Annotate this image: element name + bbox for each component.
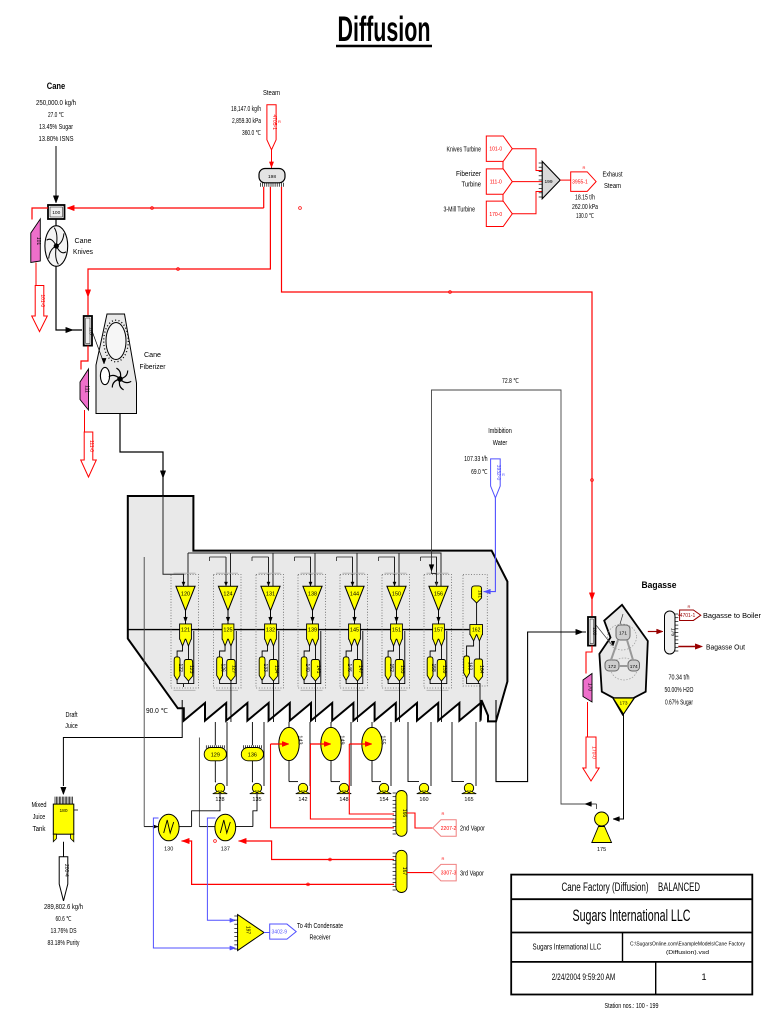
svg-text:13.80% ISNS: 13.80% ISNS [39,136,74,143]
wire heater 155 vapor (red) [349,744,394,814]
svg-text:60.6 ℃: 60.6 ℃ [56,916,72,923]
svg-text:175: 175 [597,847,606,853]
svg-text:139: 139 [308,628,317,634]
svg-text:161: 161 [476,590,482,598]
wire heater 137 out [236,826,253,828]
wire 111 to tag 111-0 (red) [84,410,86,432]
svg-text:152: 152 [388,663,394,672]
fiberizer small roll [100,367,109,384]
svg-text:Bagasse: Bagasse [642,580,677,590]
svg-text:144: 144 [350,592,359,598]
svg-text:122: 122 [177,663,183,672]
svg-text:131: 131 [266,592,275,598]
wire fiberizer feed inside tower [163,496,184,586]
svg-text:111: 111 [84,385,90,393]
pump 148 [339,783,348,792]
wire 110 into fiberizer [92,331,104,362]
stream tag 170-0 arrow [486,201,512,226]
pump 128 [215,783,224,792]
mill internal links [611,640,618,660]
wire 100 to turbine 101 (red) [32,208,48,220]
svg-text:13.45% Sugar: 13.45% Sugar [39,124,74,131]
svg-text:R: R [583,165,586,170]
svg-text:107.33 t/h: 107.33 t/h [464,456,488,463]
svg-text:83.18% Purity: 83.18% Purity [48,940,80,947]
wire heater 149 vapor (red) [310,744,394,819]
wire into heater 130 [144,826,158,828]
svg-text:160: 160 [419,797,428,803]
title block [511,875,752,995]
station box 100 [48,205,65,219]
svg-text:262.00 kPa: 262.00 kPa [572,204,598,211]
svg-text:R: R [442,856,445,861]
svg-text:4701-1: 4701-1 [680,613,696,619]
svg-text:101-0: 101-0 [39,294,45,307]
svg-text:3-Mill Turbine: 3-Mill Turbine [444,206,476,213]
wire 2nd vapor to heater 137 (red) [239,841,395,860]
fiberizer hammer star [120,379,131,383]
svg-text:BALANCED: BALANCED [658,882,700,894]
svg-text:145: 145 [350,628,359,634]
svg-text:Fiberizer: Fiberizer [140,364,167,371]
svg-text:147: 147 [357,665,363,674]
pump 160 [419,783,428,792]
svg-text:Bagasse to Boiler: Bagasse to Boiler [703,613,762,620]
svg-text:Knives Turbine: Knives Turbine [447,147,482,154]
svg-text:172: 172 [608,664,616,670]
svg-text:132: 132 [266,628,275,634]
diffuser stage 131 group [256,575,284,689]
svg-text:Cane: Cane [75,238,92,245]
wire 166 to 2nd vapor tag (red) [407,813,433,828]
svg-text:Water: Water [493,440,508,447]
svg-text:18,147.0 kg/h: 18,147.0 kg/h [231,106,261,113]
stream tag 111-0 arrow [486,169,512,194]
svg-text:125: 125 [223,628,232,634]
svg-text:143: 143 [297,735,303,744]
svg-text:171: 171 [619,631,627,637]
svg-text:2/24/2004 9:59:20 AM: 2/24/2004 9:59:20 AM [552,972,616,982]
svg-text:3932-0: 3932-0 [495,465,501,481]
wire steam to 110 (red) [88,187,270,315]
contact heater 143 [288,722,290,728]
svg-text:148: 148 [339,797,348,803]
wire tank to tag [63,842,65,857]
stream tag 3402-9 condensate [270,924,297,939]
flash tank 136 [251,722,253,745]
svg-text:124: 124 [223,592,232,598]
svg-text:50.00% H2O: 50.00% H2O [665,687,694,694]
wire 167 to 3rd vapor tag (red) [407,872,433,874]
collector 199 (triangle mixer) [542,161,560,198]
svg-text:Bagasse Out: Bagasse Out [706,645,745,652]
svg-text:164: 164 [478,665,484,674]
station box 110 [84,316,92,346]
svg-text:165: 165 [464,797,473,803]
svg-text:Diffusion: Diffusion [338,10,431,49]
svg-text:Station nos.: 100 - 199: Station nos.: 100 - 199 [605,1003,659,1010]
svg-text:101: 101 [35,237,41,246]
svg-text:198: 198 [268,174,276,180]
mill roll 172 [605,660,619,671]
wire scalding juice drop [143,557,145,827]
svg-text:123: 123 [188,665,194,674]
svg-text:150: 150 [392,592,401,598]
svg-text:Cane: Cane [144,352,161,359]
svg-text:141: 141 [315,665,321,674]
svg-text:163: 163 [466,662,472,671]
wire draft juice from diffuser [63,700,182,786]
cane knives fan 101 [55,219,57,226]
wire steam to 100 (red) [263,187,265,208]
svg-text:158: 158 [430,663,436,672]
svg-text:R: R [278,119,281,124]
vapor manifold 166 [396,791,407,837]
svg-text:Juice: Juice [33,814,46,821]
diffuser stage 150 group [382,575,410,689]
svg-text:170-0: 170-0 [591,746,597,759]
svg-text:2nd Vapor: 2nd Vapor [460,826,486,833]
wire mill to bagasse manifold (dark red) [648,631,660,633]
stream tag 2207-2 2nd vapor [433,820,457,837]
svg-text:Steam: Steam [263,90,280,97]
svg-text:149: 149 [339,735,345,744]
wire steam tag to manifold 198 (red) [271,150,273,168]
svg-text:Turbine: Turbine [462,182,482,189]
svg-text:199: 199 [544,179,552,185]
contact heater 155 [371,722,373,728]
dewatering mill body [599,605,647,715]
svg-text:197: 197 [245,926,251,935]
svg-text:142: 142 [298,797,307,803]
svg-text:Cane Factory (Diffusion): Cane Factory (Diffusion) [562,882,649,894]
wire pump 128 discharge [192,794,220,827]
svg-text:1: 1 [701,972,706,982]
wire to tag 4701-1 (dark red) [678,614,679,616]
svg-text:151: 151 [392,628,401,634]
svg-text:Sugars International LLC: Sugars International LLC [573,907,691,925]
svg-text:18.15 t/h: 18.15 t/h [575,195,595,202]
diffuser stage 138 group [298,575,326,689]
vapor manifold 167 [396,850,407,892]
pump 165 [464,783,473,792]
svg-text:70.34 t/h: 70.34 t/h [669,675,690,682]
mill discharge triangle 173 [613,698,634,714]
mill roll 171 [616,625,630,640]
svg-text:155: 155 [380,735,386,744]
svg-text:153: 153 [399,665,405,674]
svg-text:169: 169 [591,627,597,635]
svg-text:To 4th Condensate: To 4th Condensate [297,923,343,930]
svg-text:111-0: 111-0 [88,440,94,452]
wire 199 to exhaust tag (red) [560,179,571,181]
svg-text:154: 154 [379,797,388,803]
svg-text:111-0: 111-0 [490,180,502,186]
juice heater 137 [215,814,236,841]
svg-text:167: 167 [401,867,407,876]
mixed juice tank 180 [54,797,56,805]
wire 3rd vapor to heater 130 (red) [182,841,395,884]
svg-text:133: 133 [262,663,268,672]
svg-text:156: 156 [434,592,443,598]
diffuser stage 156 group [424,575,452,689]
svg-text:138: 138 [308,592,317,598]
svg-text:200-4: 200-4 [63,864,69,877]
svg-text:2,859.30 kPa: 2,859.30 kPa [232,118,261,125]
svg-text:4705-1: 4705-1 [271,114,277,130]
steam manifold 198 [259,169,285,183]
svg-text:Juice: Juice [65,723,78,730]
svg-text:174: 174 [630,664,638,670]
svg-text:129: 129 [211,753,220,759]
svg-text:134: 134 [273,665,279,674]
svg-text:3955-1: 3955-1 [572,180,588,186]
svg-text:130.0 ℃: 130.0 ℃ [576,213,594,220]
svg-text:121: 121 [181,628,190,634]
svg-text:162: 162 [472,628,481,634]
turbine 111 (pink) [80,369,89,410]
svg-text:Cane: Cane [47,81,66,91]
svg-text:159: 159 [441,665,447,674]
bagasse manifold 176 [665,611,676,654]
turbine 170 (pink) [583,674,592,703]
svg-text:146: 146 [346,663,352,672]
svg-text:157: 157 [434,628,443,634]
stream tag 101-0 arrow [486,136,512,161]
stream tag 4701-1 bagasse to boiler [680,610,701,621]
svg-text:R: R [688,604,691,609]
diffuser vessel body [128,496,508,721]
svg-text:Sugars International LLC: Sugars International LLC [533,942,602,952]
wire cane feed [55,146,57,198]
svg-text:27.0 ℃: 27.0 ℃ [48,112,64,119]
wire press water recirculation [432,390,597,804]
wire 110 to turbine 111 (red) [81,346,88,370]
svg-text:120: 120 [181,592,190,598]
fiberizer drum [106,323,126,360]
red flow markers [151,207,154,210]
svg-text:289,802.6 kg/h: 289,802.6 kg/h [44,904,83,911]
svg-text:Imbibition: Imbibition [488,428,512,435]
svg-text:Draft: Draft [66,712,78,719]
svg-text:137: 137 [221,847,230,853]
svg-text:100: 100 [52,210,60,216]
wire steam to 169 (red) [282,187,593,616]
cane fiberizer body [96,314,137,414]
wire heater 130 condensate (blue) [153,818,235,948]
svg-text:C:\SugarsOnline.com\ExampleMod: C:\SugarsOnline.com\ExampleModels\Cane F… [630,942,745,948]
stream tag 3932-0 imbibition (blue banner) [491,459,501,498]
svg-text:Tank: Tank [33,826,46,833]
stream tag 4705-1 steam (red banner) [267,105,276,150]
wire fiberizer to diffuser [120,414,163,496]
svg-text:R: R [442,811,445,816]
svg-text:Mixed: Mixed [32,802,47,809]
wire 169 to turbine 170 (red) [586,646,592,674]
interstage juice line [128,629,470,631]
wire bagasse from diffuser to press 169 [496,632,586,782]
svg-text:Knives: Knives [73,249,93,256]
svg-text:3rd Vapor: 3rd Vapor [460,871,485,878]
mill roll 174 [628,660,640,671]
svg-text:127: 127 [231,665,237,674]
svg-text:3307-3: 3307-3 [441,871,457,877]
svg-text:173: 173 [619,701,627,707]
svg-text:360.0 ℃: 360.0 ℃ [242,130,261,137]
diffuser stage 161 group [463,575,487,687]
svg-text:Fiberizer: Fiberizer [456,171,482,178]
wire imbibition to stage 161 (blue) [484,498,496,592]
wire pump 135 discharge [253,794,257,827]
wire press water into diffuser [432,550,437,586]
condensate collector 197 (triangle) [238,915,264,951]
wire 197 to tag (blue) [264,932,270,934]
pump 154 [379,783,388,792]
stream tag 101-0 (red banner) [32,286,48,332]
stream tag 200-4 mixed juice (black banner) [59,857,68,901]
flash tank 129 [214,722,216,745]
svg-text:130: 130 [164,847,173,853]
stream tag 3307-3 3rd vapor [433,864,457,881]
stream tag 170-0 (red banner) [583,737,599,781]
svg-text:72.8 ℃: 72.8 ℃ [502,378,519,385]
svg-text:170-0: 170-0 [489,212,502,218]
pump 175 [595,812,609,826]
svg-text:136: 136 [248,753,257,759]
juice heater 130 [158,814,179,841]
diffuser stage 144 group [340,575,368,689]
wire feeds pumps 160 165 [408,722,419,782]
svg-text:(Diffusion).vsd: (Diffusion).vsd [666,950,709,956]
svg-text:Exhaust: Exhaust [603,172,623,179]
svg-text:2207-2: 2207-2 [441,826,457,832]
pump 135 [252,783,261,792]
svg-text:101-0: 101-0 [489,147,502,153]
svg-text:140: 140 [304,663,310,672]
svg-text:13.76% DS: 13.76% DS [51,928,77,935]
stream tag 111-0 (red banner) [81,432,97,477]
wire heater 130 out [179,826,192,828]
stream tag 3955-1 exhaust [571,172,596,192]
wire mill 173 to pump 175 [613,714,624,819]
diffuser stage 120 group [171,575,199,689]
svg-text:Steam: Steam [604,183,621,190]
svg-text:69.0 ℃: 69.0 ℃ [471,469,488,476]
svg-text:126: 126 [219,663,225,672]
svg-text:180: 180 [59,808,67,814]
contact heater 149 [330,722,332,728]
wire 101 to tag 101-0 (red) [35,263,37,287]
station box 169 [588,617,595,646]
wire knives to 110 [56,266,82,330]
wire heater 137 condensate (blue) [207,818,235,920]
pump 142 [298,783,307,792]
wire 170 to tag 170-0 (red) [587,702,589,737]
svg-text:170: 170 [587,683,593,692]
wire juice drop to heater 137 [198,738,200,827]
wire bagasse out (dark red) [678,646,695,648]
wire heater 143 vapor (red) [271,744,395,828]
diffuser stage 124 group [214,575,242,689]
wires tags into collector 199 (red) [502,161,504,169]
svg-text:0.67% Sugar: 0.67% Sugar [665,700,693,707]
svg-text:3402-9: 3402-9 [272,930,288,936]
turbine 101 (pink) [31,219,41,263]
svg-text:166: 166 [401,809,407,818]
svg-text:90.0 ℃: 90.0 ℃ [146,708,168,715]
svg-text:R: R [502,472,505,477]
svg-text:Receiver: Receiver [310,935,332,942]
svg-text:250,000.0 kg/h: 250,000.0 kg/h [36,100,76,107]
svg-text:176: 176 [670,628,676,637]
